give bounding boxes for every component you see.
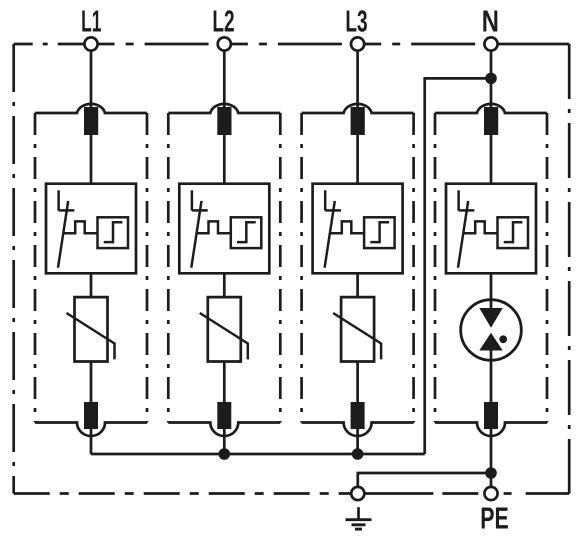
terminal earth bbox=[351, 487, 364, 500]
module box L2 top edge with socket arc bbox=[168, 104, 280, 113]
varistor L2 diagonal bbox=[200, 313, 248, 359]
trip indicator step symbol L2 bbox=[237, 222, 256, 242]
trip indicator box L1 bbox=[98, 217, 129, 248]
ground symbol bar 3 bbox=[355, 528, 362, 531]
wire L3 terminal to top contact bbox=[356, 51, 359, 110]
disconnector contact bar L1 bbox=[59, 209, 75, 212]
enclosure border top segment 1 bbox=[14, 43, 85, 46]
spark gap electrode upper bbox=[479, 308, 502, 328]
disconnector blade L3 bbox=[325, 201, 335, 268]
disconnector contact bar N bbox=[459, 209, 475, 212]
wire L3 disconnector to varistor bbox=[356, 273, 359, 297]
svg-text:L1: L1 bbox=[81, 5, 101, 38]
thermal disconnector box N bbox=[446, 184, 536, 274]
wire L1 bottom contact to N bus bbox=[90, 429, 93, 454]
module box L3 top edge with socket arc bbox=[302, 104, 414, 113]
thermal disconnector box L1 bbox=[46, 184, 136, 274]
wire L3 varistor to bottom contact bbox=[356, 362, 359, 405]
ground symbol bar 2 bbox=[352, 523, 366, 526]
enclosure border top segment 3 bbox=[231, 43, 351, 46]
varistor L1 diagonal bbox=[67, 313, 115, 359]
module box N left side bbox=[434, 113, 437, 423]
wire inside spark gap top bbox=[490, 301, 493, 309]
terminal N bbox=[484, 37, 497, 50]
wire L2 varistor to bottom contact bbox=[223, 362, 226, 405]
top plug contact N bbox=[484, 107, 498, 135]
trip indicator step symbol N bbox=[504, 222, 523, 242]
wire L2 contact to disconnector bbox=[223, 135, 226, 184]
disconnector blade L2 bbox=[191, 201, 201, 268]
module box N top edge with socket arc bbox=[435, 104, 547, 113]
disconnector trip linkage N bbox=[464, 221, 498, 233]
module box L1 top edge with socket arc bbox=[35, 104, 147, 113]
enclosure border bottom segment 2 bbox=[364, 492, 484, 495]
module box L2 bottom edge with socket arc bbox=[168, 423, 280, 437]
terminal PE bbox=[484, 487, 497, 500]
disconnector trip linkage L1 bbox=[64, 221, 98, 233]
wire inside spark gap bottom bbox=[490, 350, 493, 404]
wire L1 varistor to bottom contact bbox=[90, 362, 93, 405]
svg-text:PE: PE bbox=[480, 501, 508, 536]
trip indicator box L3 bbox=[364, 217, 395, 248]
thermal disconnector box L3 bbox=[313, 184, 403, 274]
module box L2 left side bbox=[167, 113, 170, 423]
disconnector fixed contact L1 bbox=[57, 190, 60, 210]
disconnector fixed contact N bbox=[457, 190, 460, 210]
junction PE bbox=[485, 467, 497, 479]
disconnector contact bar L3 bbox=[325, 209, 341, 212]
terminal L1 bbox=[84, 37, 97, 50]
top plug contact L1 bbox=[84, 107, 98, 135]
junction N bus L3 bbox=[352, 448, 364, 460]
svg-text:L2: L2 bbox=[212, 5, 234, 39]
wire L1 terminal to top contact bbox=[90, 51, 93, 110]
spark gap gas dot bbox=[499, 335, 507, 343]
svg-text:L3: L3 bbox=[345, 5, 367, 39]
wire N disconnector to spark gap bbox=[490, 273, 493, 301]
wire L2 bottom contact to N bus bbox=[223, 429, 226, 454]
disconnector blade L1 bbox=[58, 201, 68, 268]
bottom plug contact L3 bbox=[351, 402, 365, 429]
bottom plug contact N bbox=[484, 402, 498, 429]
module box L3 left side bbox=[300, 113, 303, 423]
enclosure border bottom segment 1 bbox=[14, 492, 352, 495]
disconnector blade N bbox=[458, 201, 468, 268]
top plug contact L2 bbox=[217, 107, 231, 135]
varistor L1 body bbox=[75, 297, 108, 361]
wire L2 disconnector to varistor bbox=[223, 273, 226, 297]
disconnector fixed contact L3 bbox=[324, 190, 327, 210]
enclosure border top segment 2 bbox=[98, 43, 218, 46]
disconnector contact bar L2 bbox=[192, 209, 208, 212]
junction N top bbox=[485, 73, 497, 85]
enclosure border left bbox=[12, 44, 15, 494]
enclosure border top segment 4 bbox=[364, 43, 484, 46]
module box L1 right side bbox=[146, 113, 149, 423]
wire N terminal to top contact bbox=[490, 51, 493, 110]
module box L1 bottom edge with socket arc bbox=[35, 423, 147, 437]
junction N bus L2 bbox=[219, 448, 231, 460]
varistor L2 body bbox=[208, 297, 241, 361]
enclosure border right bbox=[568, 44, 571, 494]
wire L1 contact to disconnector bbox=[90, 135, 93, 184]
module box L1 left side bbox=[34, 113, 37, 423]
module box L3 right side bbox=[412, 113, 415, 423]
wire N contact to disconnector bbox=[490, 135, 493, 184]
wire L2 terminal to top contact bbox=[223, 51, 226, 110]
ground symbol bar 1 bbox=[346, 518, 372, 521]
ground symbol stem bbox=[357, 507, 360, 519]
terminal L2 bbox=[218, 37, 231, 50]
PE equipotential wire bbox=[358, 473, 491, 487]
varistor L3 body bbox=[341, 297, 374, 361]
disconnector trip linkage L3 bbox=[330, 221, 364, 233]
trip indicator box N bbox=[498, 217, 529, 248]
enclosure border bottom segment 3 bbox=[498, 492, 569, 495]
wire L3 contact to disconnector bbox=[356, 135, 359, 184]
spark gap U1 body bbox=[461, 300, 522, 361]
trip indicator box L2 bbox=[231, 217, 261, 248]
trip indicator step symbol L3 bbox=[370, 222, 389, 242]
module box N bottom edge with socket arc bbox=[435, 423, 547, 437]
module box L2 right side bbox=[279, 113, 282, 423]
bottom plug contact L1 bbox=[84, 402, 98, 429]
wire N bottom contact to PE bbox=[490, 429, 493, 487]
module box L3 bottom edge with socket arc bbox=[302, 423, 414, 437]
top plug contact L3 bbox=[351, 107, 365, 135]
module box N right side bbox=[546, 113, 549, 423]
thermal disconnector box L2 bbox=[179, 184, 269, 274]
bottom plug contact L2 bbox=[217, 402, 231, 429]
disconnector fixed contact L2 bbox=[191, 190, 194, 210]
N bus riser wire bbox=[425, 78, 491, 454]
N bus wire bbox=[91, 453, 425, 456]
trip indicator step symbol L1 bbox=[104, 222, 123, 242]
terminal L3 bbox=[351, 37, 364, 50]
enclosure border top segment 5 bbox=[498, 43, 570, 46]
disconnector trip linkage L2 bbox=[197, 221, 231, 233]
svg-text:N: N bbox=[482, 3, 499, 38]
wire L1 disconnector to varistor bbox=[90, 273, 93, 297]
spark gap electrode lower bbox=[479, 333, 502, 351]
wire L3 bottom contact to N bus bbox=[356, 429, 359, 454]
varistor L3 diagonal bbox=[333, 313, 381, 359]
